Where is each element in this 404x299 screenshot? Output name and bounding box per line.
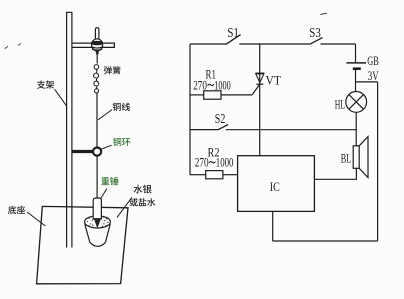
thyristor VT vertical wire	[259, 44, 261, 156]
speck marks top-left	[5, 44, 21, 49]
svg-text:IC: IC	[270, 179, 280, 194]
battery GB long plate	[346, 62, 366, 64]
switch S1 blade	[226, 35, 241, 45]
copper ring	[93, 148, 101, 156]
leader line liquid label	[117, 197, 132, 217]
svg-text:1000: 1000	[214, 78, 231, 92]
cup with liquid	[85, 216, 111, 247]
label R2 value tilde	[209, 161, 215, 162]
speaker BL box	[353, 146, 359, 169]
svg-text:S3: S3	[309, 26, 321, 41]
stand pole	[67, 12, 72, 247]
stray dash mark	[320, 13, 327, 14]
thyristor VT anode bar	[256, 72, 265, 74]
wire speaker bottom	[314, 168, 356, 179]
resistor R2 body	[206, 171, 223, 179]
label tongxian 铜线	[113, 103, 130, 111]
resistor R1 body	[204, 91, 221, 99]
svg-text:S1: S1	[227, 26, 239, 41]
label zhongchui 重锤	[101, 177, 118, 185]
wire R1 to gate	[221, 94, 252, 96]
label R1 value tilde	[208, 84, 214, 85]
leader line for base label	[27, 212, 45, 226]
wire S3 to corner	[321, 43, 356, 45]
thyristor VT gate lead	[252, 84, 259, 94]
switch S2 blade	[218, 125, 229, 130]
wire lamp to speaker	[355, 112, 357, 146]
thyristor VT cathode bar	[256, 83, 263, 85]
label dizuo 底座	[8, 206, 25, 214]
leader line for stand label	[55, 89, 67, 106]
wire bottom return	[273, 240, 378, 242]
weight cylinder	[93, 198, 101, 219]
clamp bosshead	[92, 39, 103, 51]
wire IC bottom pin	[272, 211, 274, 241]
svg-text:BL: BL	[341, 151, 352, 165]
switch S3 blade	[310, 38, 323, 45]
spring coils	[94, 65, 99, 93]
svg-text:270: 270	[195, 156, 209, 170]
base board	[37, 206, 128, 283]
wire left vertical	[189, 44, 191, 175]
weight dark tip	[94, 218, 102, 228]
wire R1 left segment	[190, 94, 204, 96]
wire R2 left segment	[190, 174, 206, 176]
label huoyanshui 或盐水	[130, 198, 156, 206]
wire below ring	[96, 156, 98, 198]
svg-text:S2: S2	[215, 112, 226, 127]
label tanhuang 弹簧	[104, 66, 120, 74]
wire S2 row left segment	[190, 129, 218, 131]
speaker BL horn	[359, 137, 368, 178]
right bus wire	[377, 82, 379, 241]
svg-text:GB: GB	[367, 54, 379, 68]
lamp HL	[346, 92, 367, 113]
wire battery to lamp	[355, 70, 357, 92]
clamp screw	[95, 28, 99, 39]
wire R2 to IC	[223, 174, 238, 176]
spring hanging hook	[96, 51, 99, 56]
svg-text:3V: 3V	[368, 69, 379, 83]
label shuiyin 水银	[134, 185, 152, 194]
clamp rod	[72, 43, 114, 47]
thyristor VT triangle	[256, 74, 264, 83]
label tonghuan 铜环	[113, 138, 130, 146]
battery GB short plate	[353, 67, 361, 70]
copper wire	[96, 93, 98, 147]
IC block	[238, 156, 315, 212]
svg-text:1000: 1000	[216, 156, 234, 170]
svg-text:HL: HL	[335, 98, 345, 112]
leader line copper wire label	[98, 110, 112, 120]
support bar to ring	[72, 150, 93, 153]
svg-text:270: 270	[193, 78, 207, 92]
wire S1 to S3	[239, 43, 309, 45]
liquid stipple dots	[87, 216, 109, 227]
leader line weight label	[100, 189, 107, 200]
wire junction to right bus	[356, 81, 378, 83]
svg-text:VT: VT	[266, 73, 282, 88]
label zhijia 支架	[37, 80, 54, 88]
wire S2 to lamp branch	[226, 129, 356, 131]
wire top left segment	[190, 43, 226, 45]
leader line copper ring label	[101, 145, 112, 149]
wire down to battery	[355, 44, 357, 62]
